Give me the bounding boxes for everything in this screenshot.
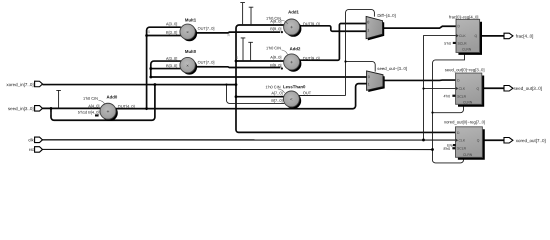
svg-text:CLK: CLK: [458, 139, 465, 143]
svg-text:1: 1: [367, 28, 369, 32]
svg-text:xored_out[0]~reg[7..0]: xored_out[0]~reg[7..0]: [444, 119, 485, 124]
svg-text:1'h0 CIN: 1'h0 CIN: [265, 84, 280, 89]
svg-text:CLK: CLK: [459, 87, 466, 91]
svg-text:Mult0: Mult0: [185, 49, 197, 54]
svg-text:A[4..0]: A[4..0]: [88, 103, 99, 108]
svg-text:seed_in[3..0]: seed_in[3..0]: [8, 106, 34, 111]
svg-text:10: 10: [227, 33, 231, 37]
svg-text:xored_in[7..0]: xored_in[7..0]: [6, 82, 33, 87]
svg-text:1'h0 CIN: 1'h0 CIN: [266, 45, 281, 50]
svg-text:frac[4..0]: frac[4..0]: [516, 34, 534, 39]
svg-text:<: <: [290, 97, 293, 102]
svg-text:A[9..0]: A[9..0]: [270, 55, 281, 60]
svg-text:×: ×: [186, 63, 189, 68]
svg-text:frac[0]~reg[4..0]: frac[0]~reg[4..0]: [449, 14, 478, 19]
svg-text:+: +: [290, 25, 293, 31]
svg-text:10: 10: [235, 56, 239, 60]
svg-text:Q: Q: [475, 34, 478, 38]
svg-text:0: 0: [367, 20, 369, 24]
svg-text:SCLR: SCLR: [457, 147, 467, 151]
svg-text:Diff~[4..0]: Diff~[4..0]: [377, 13, 395, 18]
svg-text:1: 1: [368, 82, 370, 86]
svg-text:B[9..0]: B[9..0]: [270, 63, 281, 68]
svg-text:Mult1: Mult1: [185, 17, 197, 22]
svg-text:seed_out[3..0]: seed_out[3..0]: [513, 86, 542, 91]
svg-text:B[3..0]: B[3..0]: [166, 63, 177, 68]
svg-text:+: +: [107, 109, 110, 115]
svg-text:SCLR: SCLR: [457, 95, 467, 99]
svg-text:Add0: Add0: [107, 94, 118, 99]
svg-text:Q: Q: [476, 87, 479, 91]
svg-text:seed_out~[3..0]: seed_out~[3..0]: [377, 66, 407, 71]
svg-text:×: ×: [186, 30, 189, 35]
svg-text:xored_out[7..0]: xored_out[7..0]: [516, 138, 546, 143]
svg-text:1'h0 CIN: 1'h0 CIN: [83, 96, 98, 101]
svg-text:Add2: Add2: [290, 46, 301, 51]
svg-text:CLRN: CLRN: [463, 153, 473, 157]
svg-text:10: 10: [49, 112, 53, 116]
svg-text:B[9..0]: B[9..0]: [270, 26, 281, 31]
svg-text:4'h0: 4'h0: [443, 94, 450, 98]
svg-text:A[3..0]: A[3..0]: [166, 21, 177, 26]
svg-text:CLRN: CLRN: [462, 47, 472, 51]
svg-text:OUT[7..0]: OUT[7..0]: [198, 60, 215, 65]
svg-text:10: 10: [147, 30, 151, 34]
svg-text:OUT[9..0]: OUT[9..0]: [303, 56, 320, 61]
svg-text:rst: rst: [29, 147, 35, 152]
svg-text:Q: Q: [477, 139, 480, 143]
svg-text:OUT[7..0]: OUT[7..0]: [198, 26, 215, 31]
svg-text:B[3..0]: B[3..0]: [166, 30, 177, 35]
svg-text:+: +: [290, 60, 293, 66]
svg-text:5'h1d B[4..0]: 5'h1d B[4..0]: [78, 110, 100, 115]
svg-text:seed_out[0]~reg[3..0]: seed_out[0]~reg[3..0]: [445, 67, 485, 72]
svg-text:clk: clk: [28, 137, 34, 142]
svg-text:OUT: OUT: [303, 90, 312, 95]
svg-text:CLK: CLK: [459, 34, 466, 38]
svg-text:OUT[9..0]: OUT[9..0]: [303, 21, 320, 26]
svg-text:OUT[4..0]: OUT[4..0]: [118, 104, 135, 109]
svg-text:SCLR: SCLR: [458, 42, 468, 46]
svg-text:LessThan0: LessThan0: [283, 84, 306, 89]
svg-text:0: 0: [368, 75, 370, 79]
svg-text:A[3..0]: A[3..0]: [166, 56, 177, 61]
svg-text:CLRN: CLRN: [463, 100, 473, 104]
svg-text:8'h0: 8'h0: [443, 147, 450, 151]
svg-text:B[7..0]: B[7..0]: [271, 98, 282, 103]
svg-text:5'h0: 5'h0: [444, 42, 451, 46]
svg-text:Add1: Add1: [288, 10, 299, 15]
svg-text:A[9..0]: A[9..0]: [270, 19, 281, 24]
svg-text:A[7..0]: A[7..0]: [271, 90, 282, 95]
